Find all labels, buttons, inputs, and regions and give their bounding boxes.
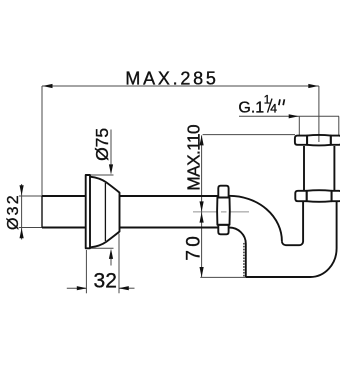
flange bell outline [90, 177, 120, 248]
dotted inner tube edge [243, 244, 245, 277]
dim line dia32 [21, 184, 23, 240]
riser second nut middle band [307, 190, 332, 202]
dim line MAX.110 and 70 [201, 135, 203, 277]
extension dia32 bottom [19, 227, 42, 229]
flange back plate [86, 175, 90, 248]
extension 70 bottom [200, 276, 246, 278]
trap upper tube sweep [229, 196, 282, 241]
dim line 32 left tail [67, 287, 87, 289]
right extension MAX.285 [318, 86, 320, 142]
extension 32 left [85, 250, 87, 293]
svg-text:Ø75: Ø75 [92, 128, 112, 161]
svg-text:70: 70 [183, 233, 204, 261]
trap inner elbow and downleg left edge [229, 228, 246, 278]
svg-text:4: 4 [270, 101, 277, 115]
arrow MAX.110 bottom [200, 201, 204, 211]
svg-text:32: 32 [94, 270, 117, 293]
arrow dia75 top [109, 164, 113, 174]
svg-text:MAX.110: MAX.110 [183, 125, 203, 191]
label G inch ticks [279, 99, 285, 105]
leader G.1 1/4 [239, 115, 339, 117]
arrow dia75 bottom [109, 249, 113, 259]
left extension MAX.285 [41, 86, 43, 196]
riser pipe between nuts left [303, 146, 305, 191]
extension dia32 top [19, 195, 42, 197]
arrowheads [20, 84, 319, 290]
arrow MAX.110 top [200, 135, 204, 145]
trap nut top band [218, 186, 228, 198]
dim line 32 right tail [119, 287, 135, 289]
extension G right [338, 116, 340, 136]
svg-text:Ø32: Ø32 [5, 193, 22, 230]
riser second nut right band [332, 191, 340, 201]
arrow MAX.285 right [308, 84, 318, 88]
object outlines [42, 135, 340, 277]
outlet bottom edge and outer bend and riser right edge [246, 202, 337, 277]
arrow 32 right [119, 286, 129, 290]
extension dia75 bottom [91, 247, 114, 249]
riser pipe between nuts right [333, 146, 335, 191]
riser top nut right band [331, 136, 340, 145]
extension 32 right [118, 234, 120, 294]
arrow G leader [289, 114, 299, 118]
inlet pipe top edge right segment [120, 195, 218, 197]
trap nut middle band [217, 198, 230, 225]
arrow 70 top [200, 212, 204, 222]
arrow dia32 top [20, 185, 24, 195]
centerline through trap inlet [193, 211, 249, 213]
dimension thin lines [19, 86, 339, 293]
leader tail dia75 bottom [110, 257, 112, 266]
arrow MAX.285 left [42, 84, 52, 88]
riser top nut left band [295, 136, 307, 145]
arrow dia32 bottom [20, 228, 24, 238]
extension dia75 top [91, 174, 114, 176]
extension G left [298, 116, 300, 136]
trap nut bottom band [218, 225, 228, 235]
riser top nut middle band [307, 135, 331, 146]
svg-text:G.1: G.1 [238, 99, 264, 116]
leader tail dia75 top [110, 130, 112, 167]
inlet pipe left end [41, 196, 43, 228]
arrow 70 bottom [200, 267, 204, 277]
arrow 32 left [77, 286, 87, 290]
gap bottom and outlet top edge and riser left edge [282, 201, 303, 245]
label G fraction slash [268, 99, 273, 113]
svg-text:MAX.285: MAX.285 [125, 68, 218, 88]
inlet pipe bottom edge left segment [42, 227, 86, 229]
extension MAX.110 top [203, 134, 295, 136]
riser second nut left band [295, 191, 306, 201]
flange inner silhouette line [104, 183, 106, 241]
dim line MAX.285 [42, 85, 319, 87]
inlet pipe top edge left segment [42, 195, 86, 197]
inlet pipe bottom edge right segment [120, 227, 218, 229]
